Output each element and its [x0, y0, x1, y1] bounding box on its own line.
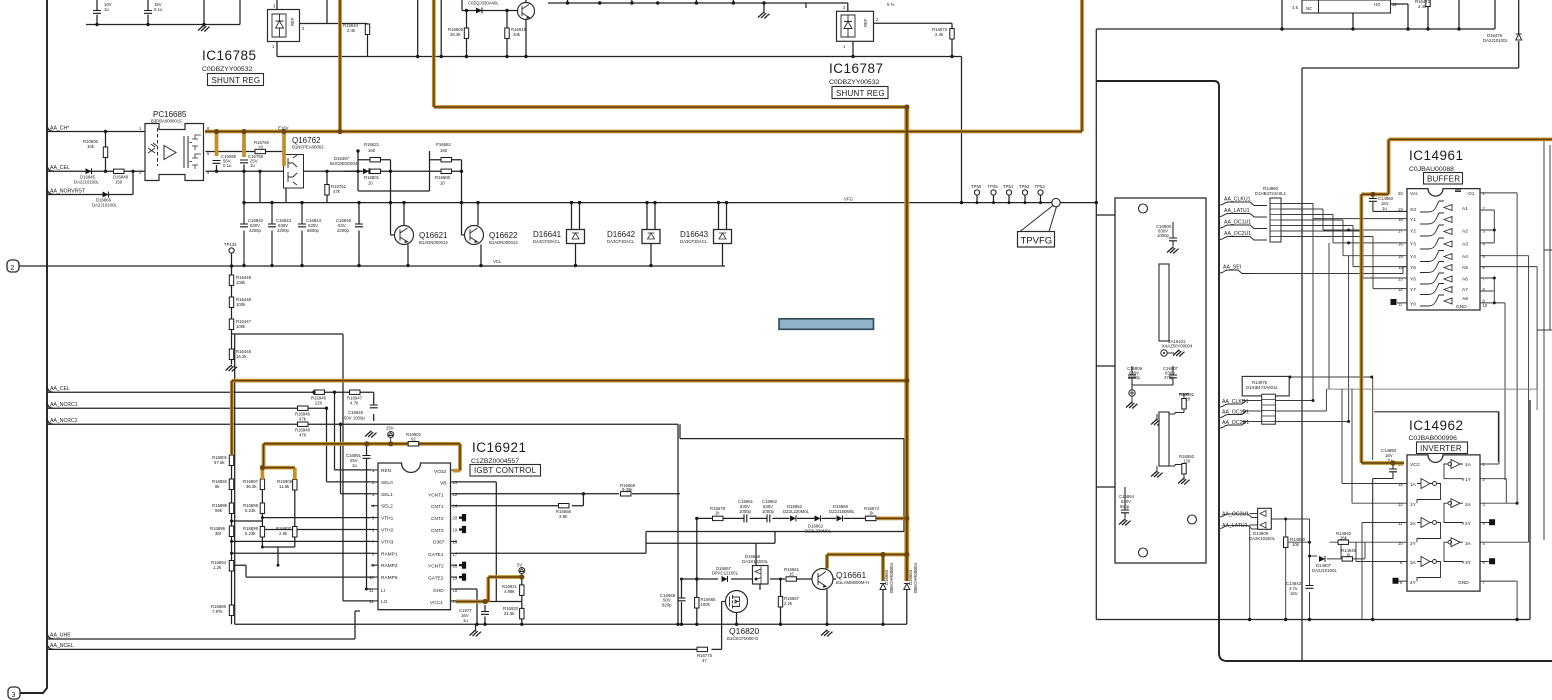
- svg-text:C0DBZYY00532: C0DBZYY00532: [829, 79, 879, 86]
- svg-text:1000p: 1000p: [1157, 233, 1170, 238]
- svg-text:220: 220: [315, 401, 323, 406]
- test point TP134: [224, 242, 237, 253]
- resistor R16948: [295, 422, 311, 438]
- wire rail y57: [277, 57, 962, 203]
- resistor R14940: [1336, 531, 1352, 544]
- svg-text:15V: 15V: [386, 426, 394, 431]
- svg-text:47k: 47k: [333, 189, 341, 194]
- resistor R16909: [277, 479, 297, 490]
- resistor R16899: [243, 526, 265, 537]
- IC U14962 body: [1393, 455, 1495, 591]
- transistor Q16762: [284, 136, 325, 188]
- svg-text:Y5: Y5: [1410, 265, 1416, 271]
- resistor R16751: [325, 184, 347, 195]
- test point TP51: [1003, 184, 1014, 195]
- svg-text:SEL0: SEL0: [381, 480, 393, 486]
- orange trace net VTH divider: [261, 444, 460, 480]
- svg-text:3: 3: [12, 692, 16, 699]
- svg-text:1u: 1u: [352, 463, 357, 468]
- svg-text:10: 10: [1483, 303, 1488, 308]
- orange core trunk: [906, 107, 908, 581]
- orange trace net VFG long: [232, 0, 907, 581]
- svg-text:LO: LO: [381, 599, 388, 605]
- svg-text:28.3k: 28.3k: [450, 32, 461, 37]
- wire IC14962 box left vertical low: [1301, 412, 1303, 661]
- resistor R16801: [364, 169, 381, 185]
- svg-text:15: 15: [789, 572, 794, 577]
- svg-text:C16945: C16945: [348, 410, 364, 415]
- svg-text:Y6: Y6: [1410, 277, 1416, 283]
- resistor R16920: [503, 606, 524, 619]
- svg-text:REF: REF: [290, 17, 295, 26]
- resistor R16674: [864, 506, 880, 521]
- wire R16775 row: [48, 611, 722, 649]
- svg-text:820p: 820p: [662, 603, 672, 608]
- net label AA_LATU1: [1219, 208, 1267, 217]
- svg-text:10: 10: [440, 181, 445, 186]
- svg-text:Y4: Y4: [1410, 254, 1416, 260]
- svg-text:REF: REF: [863, 18, 868, 27]
- blue highlight bar: [779, 319, 874, 330]
- svg-text:1u: 1u: [250, 163, 255, 168]
- svg-text:YCNT1: YCNT1: [428, 493, 444, 499]
- svg-text:5V: 5V: [517, 563, 522, 568]
- svg-text:A8: A8: [1462, 296, 1468, 302]
- IC14962 title: [1409, 418, 1464, 442]
- wire right gnd rail y620: [1096, 400, 1530, 620]
- svg-text:SHUNT REG: SHUNT REG: [212, 76, 261, 85]
- svg-text:AA_OC1U1: AA_OC1U1: [1224, 220, 1251, 226]
- diode D14907: [1312, 556, 1337, 573]
- svg-text:K4AZ50Y00004: K4AZ50Y00004: [1162, 344, 1193, 349]
- svg-text:0.1u: 0.1u: [154, 7, 163, 12]
- svg-text:3A: 3A: [1465, 541, 1472, 547]
- svg-text:+0: +0: [258, 145, 264, 150]
- resistor P16661: [364, 142, 381, 162]
- capacitor C16702: [144, 2, 163, 13]
- svg-text:IC14961: IC14961: [1409, 148, 1464, 163]
- capacitors C16842 C16843 C16844 C16845a row: [240, 203, 322, 266]
- diode D16845: [74, 168, 99, 184]
- test point TP52: [1019, 184, 1030, 195]
- svg-text:16: 16: [1398, 242, 1403, 247]
- svg-text:D16643: D16643: [680, 230, 709, 239]
- svg-text:AA_CEL: AA_CEL: [50, 386, 70, 392]
- diode D16664: [904, 563, 918, 593]
- svg-text:2.6k: 2.6k: [279, 531, 288, 536]
- svg-text:R16621: R16621: [364, 142, 380, 147]
- svg-text:S3: S3: [1410, 207, 1416, 213]
- svg-text:AA_OC1D1: AA_OC1D1: [1222, 410, 1249, 416]
- svg-text:CNT1: CNT1: [431, 504, 444, 510]
- transistor Q16661: [812, 569, 869, 590]
- resistor R16760: [254, 140, 270, 154]
- svg-text:5.23k: 5.23k: [245, 508, 256, 513]
- svg-text:25: 25: [453, 480, 458, 485]
- IC16787 SHUNT REG box: [832, 87, 888, 99]
- capacitor C16962: [762, 499, 778, 522]
- wire D14909 row: [1219, 514, 1365, 620]
- svg-text:1u: 1u: [104, 7, 109, 12]
- net label AA_SEI: [1219, 265, 1251, 274]
- svg-text:AA_LATU1: AA_LATU1: [1222, 523, 1248, 529]
- svg-text:9.36k: 9.36k: [622, 487, 633, 492]
- wire IC16921 pin stubs: [371, 470, 457, 601]
- svg-text:7.87k: 7.87k: [212, 609, 223, 614]
- svg-text:A1: A1: [1462, 206, 1468, 212]
- svg-text:AA_OC2D1: AA_OC2D1: [1222, 420, 1249, 426]
- svg-text:AA_OC2U1: AA_OC2U1: [1222, 512, 1249, 518]
- svg-text:C0JBAB000996: C0JBAB000996: [1409, 435, 1458, 442]
- resistor R16898: [243, 503, 265, 514]
- wire R14960 input rows: [1281, 204, 1373, 237]
- resistor R16496: [210, 526, 234, 537]
- svg-text:2.4k: 2.4k: [935, 32, 944, 37]
- svg-text:26: 26: [453, 564, 458, 569]
- svg-text:2A: 2A: [1465, 502, 1472, 508]
- connector slot 2: [1159, 412, 1169, 466]
- node 2: [7, 260, 19, 272]
- svg-text:GND: GND: [1456, 304, 1467, 310]
- svg-text:TP134: TP134: [224, 242, 237, 247]
- svg-text:D367: D367: [433, 540, 445, 546]
- svg-text:11.8k: 11.8k: [279, 484, 290, 489]
- top right IC fragment HO box: [1319, 0, 1398, 13]
- resistor R16665: [695, 597, 717, 608]
- wire border bottom-left vertical joins: [355, 610, 360, 612]
- svg-text:A4: A4: [1462, 254, 1468, 260]
- svg-text:10k: 10k: [1292, 542, 1300, 547]
- svg-text:TP50: TP50: [971, 184, 982, 189]
- svg-text:VFG: VFG: [844, 197, 853, 202]
- wire Q16622 leads: [462, 203, 482, 266]
- svg-text:2Y: 2Y: [1410, 541, 1417, 547]
- resistor R16656: [556, 504, 572, 520]
- svg-text:R16801: R16801: [364, 175, 380, 180]
- svg-text:1.2k: 1.2k: [213, 565, 222, 570]
- svg-text:DA3CF30ACL: DA3CF30ACL: [680, 239, 708, 244]
- node 3: [8, 687, 20, 699]
- diode D16604: [468, 1, 499, 14]
- svg-text:DZ2L330M0L: DZ2L330M0L: [805, 529, 832, 534]
- svg-text:15: 15: [1398, 482, 1403, 487]
- svg-text:DA3CF30ACL: DA3CF30ACL: [607, 239, 635, 244]
- svg-text:LI: LI: [381, 588, 385, 594]
- svg-text:4Y: 4Y: [1410, 580, 1417, 586]
- net label AA_OC1U1: [1219, 220, 1267, 229]
- wire left border: [20, 0, 47, 693]
- shunt regulator U16785 (TL431 box): [268, 4, 306, 50]
- svg-text:AA_NCRC1: AA_NCRC1: [50, 402, 78, 408]
- diode module D16641: [533, 230, 585, 245]
- resistor R16658: [620, 483, 636, 496]
- svg-text:Q16661: Q16661: [836, 570, 867, 580]
- svg-text:13: 13: [1398, 277, 1403, 282]
- IC14961 BUFFER box: [1424, 173, 1463, 185]
- test point TPVFG flag: [1018, 198, 1061, 247]
- wire gray h389: [1326, 389, 1537, 410]
- wire IC14961 right pin nets: [1480, 193, 1537, 503]
- svg-text:DA2J10100L: DA2J10100L: [1483, 38, 1508, 43]
- resistor R16445: [229, 349, 251, 360]
- svg-text:IC14962: IC14962: [1409, 418, 1464, 433]
- svg-text:12: 12: [1398, 502, 1403, 507]
- transistor Q16622: [465, 226, 519, 246]
- resistor R16606: [448, 27, 469, 39]
- orange junction dots: [214, 104, 1396, 604]
- svg-text:0.1u: 0.1u: [223, 163, 232, 168]
- wire top bus y3: [548, 0, 848, 12]
- svg-text:59k: 59k: [215, 508, 223, 513]
- svg-text:2200p: 2200p: [337, 228, 350, 233]
- wire Q16762 bottom: [244, 171, 327, 202]
- wire top verticals: [418, 0, 442, 57]
- svg-text:20: 20: [1398, 191, 1403, 196]
- resistor R16902: [406, 432, 422, 446]
- svg-text:DA2J10100L: DA2J10100L: [74, 180, 99, 185]
- wire right edge bus: [1537, 139, 1552, 540]
- wire VCL rail y266: [47, 265, 725, 267]
- power terminal 15V: [386, 426, 394, 442]
- wire IC16921 right pin nets: [456, 482, 776, 624]
- test point TP50: [971, 184, 982, 195]
- capacitor C16900: [1156, 222, 1179, 254]
- net label AA_CLKD1: [1219, 399, 1249, 407]
- wire D16643 leads: [719, 203, 727, 266]
- svg-text:470: 470: [299, 433, 307, 438]
- svg-text:26k: 26k: [1340, 536, 1348, 541]
- resistor R16680: [435, 169, 452, 185]
- svg-text:1Y: 1Y: [1465, 477, 1472, 483]
- wire top-left gnd rail: [86, 0, 240, 25]
- svg-text:16.2k: 16.2k: [236, 354, 247, 359]
- svg-text:B1ADN000013: B1ADN000013: [419, 240, 448, 245]
- test point TP53: [1035, 184, 1046, 195]
- IC U16921 body: [369, 463, 465, 610]
- wire chain R16892 column: [231, 466, 233, 625]
- diode D16497: [330, 156, 369, 174]
- power terminal 5V: [517, 563, 525, 578]
- svg-text:AA_NORVRST: AA_NORVRST: [50, 189, 86, 195]
- svg-text:12: 12: [1392, 2, 1397, 7]
- resistor R14946: [1341, 548, 1357, 561]
- resistor R16902 body over orange: [408, 442, 419, 446]
- mosfet Q16820: [726, 591, 760, 642]
- wire NCRC2 to SEL1: [341, 424, 372, 494]
- transistor Q16614: [518, 3, 535, 20]
- wire IC14962 pin nets: [1330, 389, 1408, 619]
- svg-text:1A: 1A: [1410, 482, 1417, 488]
- capacitor C16755: [240, 154, 264, 168]
- resistor R16775: [697, 647, 713, 663]
- wire Q16820 cluster rows: [697, 518, 879, 579]
- svg-text:4.7k: 4.7k: [350, 401, 359, 406]
- resistor R16667: [778, 596, 799, 607]
- wire Y pin feeds: [1313, 219, 1407, 303]
- svg-text:A3: A3: [1462, 242, 1468, 248]
- svg-text:VB: VB: [440, 481, 446, 487]
- svg-text:11: 11: [1398, 302, 1403, 307]
- svg-text:47k: 47k: [299, 417, 307, 422]
- resistor R16591: [1151, 392, 1195, 426]
- svg-text:SHUNT REG: SHUNT REG: [836, 89, 885, 98]
- wire D16642 leads: [647, 203, 655, 266]
- IC14962 INVERTER box: [1417, 442, 1468, 454]
- svg-text:5 %: 5 %: [887, 2, 895, 7]
- wire R16449 chain links: [232, 286, 344, 365]
- svg-text:D16642: D16642: [607, 230, 636, 239]
- svg-text:1Y: 1Y: [1410, 502, 1417, 508]
- ground under chain: [226, 365, 238, 372]
- svg-text:Y1: Y1: [1410, 217, 1416, 223]
- wire AA_SEI feed: [1251, 267, 1407, 274]
- IC16921 title: [471, 440, 527, 465]
- capacitor C1677: [459, 608, 489, 623]
- svg-text:AA_CLKD1: AA_CLKD1: [1222, 399, 1249, 405]
- svg-text:DA3CF30ACL: DA3CF30ACL: [533, 239, 561, 244]
- net line AA_NCRC1: [48, 408, 371, 482]
- resistor R16892: [212, 479, 234, 490]
- svg-text:O1: O1: [1468, 191, 1475, 197]
- wire AA elbows: [47, 124, 54, 649]
- capacitor C16807: [1132, 366, 1179, 385]
- ground top bus: [758, 12, 770, 19]
- svg-text:2A: 2A: [1410, 521, 1417, 527]
- svg-text:VTH2: VTH2: [381, 528, 394, 534]
- svg-text:DA2J10100L: DA2J10100L: [92, 203, 117, 208]
- svg-text:AA_OC2U1: AA_OC2U1: [1224, 231, 1251, 237]
- resistor R16848: [113, 169, 129, 184]
- wire gnd stub C1677: [476, 605, 486, 630]
- wire PC16685 out pin4: [206, 165, 371, 172]
- wire shuntreg1 pins: [277, 0, 368, 57]
- resistor R16901 57.6k: [212, 455, 234, 466]
- wire shuntreg2 pins: [848, 3, 952, 57]
- wire right border vertical: [1095, 29, 1097, 620]
- test point TP45: [988, 184, 999, 195]
- svg-text:C0DBZYY00532: C0DBZYY00532: [202, 66, 252, 73]
- svg-text:VO32: VO32: [434, 469, 447, 475]
- ground under C1677: [470, 630, 482, 637]
- IC U14961 body: [1391, 189, 1488, 310]
- svg-text:BUFFER: BUFFER: [1427, 175, 1460, 184]
- svg-text:47: 47: [702, 658, 707, 663]
- svg-text:IGBT CONTROL: IGBT CONTROL: [474, 466, 537, 475]
- svg-text:P16662: P16662: [436, 142, 451, 147]
- svg-text:IC16921: IC16921: [472, 440, 527, 455]
- wire bus verticals mid: [1313, 204, 1373, 289]
- svg-text:Q16621: Q16621: [419, 231, 448, 240]
- svg-text:NC: NC: [1306, 6, 1312, 11]
- svg-text:120: 120: [1183, 459, 1191, 464]
- svg-text:B0ECHR00B04: B0ECHR00B04: [913, 563, 918, 593]
- wire bus drop to R14975: [1289, 219, 1372, 460]
- resistor R16907: [276, 526, 297, 537]
- wire right top bus y29: [1096, 0, 1495, 29]
- ground top-left: [198, 25, 210, 32]
- svg-text:DA2J10100L: DA2J10100L: [1312, 568, 1337, 573]
- wire LI feed: [367, 446, 372, 590]
- diode module D16642: [607, 230, 660, 245]
- svg-text:10: 10: [1398, 541, 1403, 546]
- svg-text:1A: 1A: [1465, 462, 1472, 468]
- net line AA_CEL mid: [48, 392, 374, 421]
- capacitor C16701: [93, 2, 112, 13]
- svg-text:A5: A5: [1462, 265, 1468, 271]
- capacitor C16668: [660, 593, 686, 608]
- svg-text:GHD: GHD: [433, 588, 444, 594]
- svg-text:57.6k: 57.6k: [214, 460, 225, 465]
- svg-text:TP53: TP53: [1035, 184, 1046, 189]
- svg-text:11: 11: [1398, 521, 1403, 526]
- capacitor C16891: [346, 453, 371, 468]
- resistor array R14975: [1242, 376, 1289, 424]
- svg-text:160: 160: [368, 148, 376, 153]
- svg-text:4.5: 4.5: [1292, 5, 1299, 10]
- diode D16663: [880, 563, 894, 593]
- svg-text:HO: HO: [1374, 2, 1381, 7]
- wire R16921 column: [498, 577, 522, 624]
- svg-text:TPVFG: TPVFG: [1021, 236, 1053, 247]
- wire box right edge: [677, 424, 679, 624]
- orange core lines: [205, 0, 1552, 602]
- resistor R16894: [211, 560, 234, 571]
- resistor P16662: [436, 142, 452, 162]
- svg-text:RAMP1: RAMP1: [381, 552, 398, 558]
- svg-text:DZ2L220M0L: DZ2L220M0L: [783, 509, 810, 514]
- resistor R16615: [505, 27, 527, 39]
- IC14962 outer box: [1374, 412, 1498, 462]
- svg-text:VCC: VCC: [1410, 462, 1421, 468]
- svg-text:D16641: D16641: [533, 230, 562, 239]
- svg-text:B3PBA0000015: B3PBA0000015: [151, 119, 182, 124]
- svg-text:REN: REN: [381, 468, 392, 474]
- top right IC fragment NC box: [1292, 0, 1319, 13]
- svg-text:10: 10: [368, 181, 373, 186]
- wire bus corner to AA column: [1096, 81, 1552, 661]
- ground C16945: [365, 431, 377, 438]
- svg-text:3Y: 3Y: [1465, 560, 1472, 566]
- IC14961 title: [1409, 148, 1464, 173]
- svg-text:IC16787: IC16787: [829, 61, 884, 76]
- svg-text:17: 17: [1398, 229, 1403, 234]
- svg-text:Q16622: Q16622: [489, 231, 518, 240]
- svg-text:12: 12: [1398, 287, 1403, 292]
- capacitor C16945: [344, 405, 378, 421]
- wire AA_CH lines left: [48, 132, 145, 195]
- wire D16641 leads: [572, 203, 580, 266]
- svg-text:DA3X102E0L: DA3X102E0L: [742, 559, 769, 564]
- svg-text:Y0: Y0: [1410, 302, 1416, 308]
- svg-text:DA2K101E0L: DA2K101E0L: [1249, 536, 1276, 541]
- wire PC16685 out pin5: [206, 151, 284, 153]
- resistor R16895: [212, 503, 234, 514]
- ground Q16661 emitter: [821, 630, 833, 637]
- svg-text:16V: 16V: [1290, 591, 1298, 596]
- orange trace net E16V main: [205, 0, 1082, 166]
- wire TP row stems: [977, 195, 1056, 206]
- svg-text:50V 1000p: 50V 1000p: [344, 416, 365, 421]
- resistor R14950: [1284, 537, 1306, 548]
- svg-text:AA_CLKU1: AA_CLKU1: [1224, 197, 1251, 203]
- orange trace net E16V top: [338, 0, 342, 132]
- connector slot 1: [1159, 264, 1169, 341]
- svg-text:DZ2J150M0L: DZ2J150M0L: [829, 509, 855, 514]
- svg-text:5.23k: 5.23k: [245, 531, 256, 536]
- wire Q16614 cluster: [462, 0, 526, 57]
- diode D16966: [829, 504, 855, 521]
- wire RAMP taps: [232, 547, 372, 577]
